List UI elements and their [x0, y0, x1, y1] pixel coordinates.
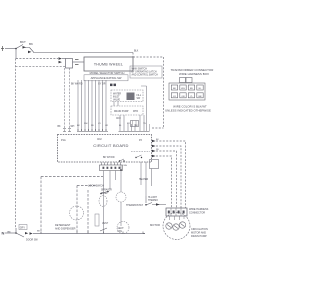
svg-text:GRY: GRY — [20, 227, 26, 230]
svg-text:BK: BK — [8, 231, 12, 234]
svg-text:CN3: CN3 — [116, 118, 121, 120]
svg-text:THERMOSTAT: THERMOSTAT — [126, 204, 143, 207]
svg-text:BK: BK — [58, 126, 62, 128]
svg-text:GY: GY — [173, 96, 177, 98]
svg-text:BR: BR — [198, 96, 201, 98]
svg-text:MODEL SELECTOR SWITCH: MODEL SELECTOR SWITCH — [90, 71, 125, 75]
svg-text:THUMB WHEEL: THUMB WHEEL — [94, 63, 123, 67]
svg-text:N: N — [2, 231, 5, 236]
svg-text:CIRCULATION: CIRCULATION — [191, 228, 208, 231]
svg-text:WIRE HARNESS: WIRE HARNESS — [189, 208, 209, 211]
svg-text:SPRAYER: SPRAYER — [101, 189, 112, 192]
svg-text:WH: WH — [84, 123, 88, 125]
svg-text:WH: WH — [124, 165, 128, 167]
svg-text:DETERGENT: DETERGENT — [55, 224, 71, 227]
svg-text:MTR: MTR — [133, 111, 138, 113]
svg-text:BY OPERATING LATCH: BY OPERATING LATCH — [132, 71, 157, 74]
svg-text:APPLIANCE RATING SW: APPLIANCE RATING SW — [91, 76, 122, 80]
svg-text:DRAIN PUMP: DRAIN PUMP — [191, 235, 207, 238]
svg-text:AND DISPENSER: AND DISPENSER — [55, 228, 76, 231]
svg-text:WH: WH — [181, 88, 185, 90]
svg-text:P1A: P1A — [61, 139, 66, 142]
svg-text:WIRE HARNESS BOX: WIRE HARNESS BOX — [179, 72, 209, 76]
svg-text:MOTOR AND: MOTOR AND — [191, 232, 206, 235]
svg-text:DRAIN PUMP: DRAIN PUMP — [114, 110, 129, 113]
svg-text:BKT: BKT — [20, 40, 26, 44]
svg-text:GY OR: GY OR — [98, 84, 106, 86]
svg-text:MAIN SWITCH: MAIN SWITCH — [132, 68, 148, 71]
svg-text:WH: WH — [71, 126, 75, 128]
svg-text:MOTOR: MOTOR — [150, 223, 160, 227]
svg-text:BK WH RD: BK WH RD — [103, 157, 115, 159]
svg-text:VENT: VENT — [118, 228, 125, 230]
svg-text:HEATER: HEATER — [139, 178, 148, 181]
svg-text:BK WH RD: BK WH RD — [71, 84, 83, 86]
svg-text:FILL: FILL — [137, 95, 142, 97]
svg-text:DOOR SW: DOOR SW — [26, 239, 38, 242]
svg-text:OR: OR — [181, 96, 185, 98]
svg-text:VENT: VENT — [102, 223, 109, 225]
svg-text:VALVE: VALVE — [113, 99, 121, 102]
svg-text:AND CONTROL SWITCH: AND CONTROL SWITCH — [132, 74, 159, 77]
svg-text:LOCK SW/CH: LOCK SW/CH — [88, 185, 104, 188]
svg-text:THERMO: THERMO — [148, 200, 158, 202]
svg-text:CONNECTOR: CONNECTOR — [189, 212, 205, 215]
svg-text:HI-LIMIT: HI-LIMIT — [148, 197, 158, 199]
svg-text:CN2: CN2 — [97, 139, 102, 141]
svg-text:BLK: BLK — [134, 51, 139, 53]
svg-text:RD: RD — [190, 88, 194, 90]
svg-text:WATER: WATER — [113, 93, 121, 96]
svg-text:INLET: INLET — [113, 97, 120, 99]
svg-text:BK: BK — [29, 42, 33, 46]
svg-text:FAN: FAN — [118, 230, 123, 233]
svg-text:UNLESS INDICATED OTHERWISE: UNLESS INDICATED OTHERWISE — [165, 108, 211, 112]
svg-text:CIRCUIT BOARD: CIRCUIT BOARD — [93, 143, 128, 148]
